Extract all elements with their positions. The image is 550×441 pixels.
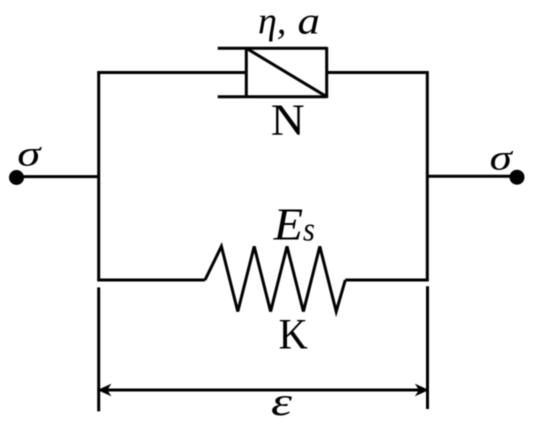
spring K zigzag: [205, 246, 345, 311]
dimension extension line right: [426, 286, 429, 409]
dimension line with arrows: [98, 384, 429, 397]
wire bottom right segment: [345, 279, 428, 282]
svg-text:a: a: [298, 0, 320, 42]
svg-text:N: N: [271, 95, 305, 144]
svg-text:σ: σ: [17, 134, 42, 174]
svg-text:E: E: [273, 200, 303, 250]
spring value label Es: [273, 200, 315, 250]
dashpot value label eta, a: [258, 0, 320, 43]
wire bottom left segment: [97, 279, 205, 282]
wire loop right vertical: [426, 71, 429, 281]
wire loop left vertical: [97, 71, 100, 281]
left terminal dot: [9, 170, 24, 185]
dashpot name label N: [271, 95, 305, 144]
wire right terminal: [427, 175, 517, 178]
svg-text:η,: η,: [258, 1, 286, 43]
wire left terminal to loop: [17, 175, 99, 178]
svg-text:s: s: [303, 210, 315, 248]
node sigma label right: [490, 138, 514, 178]
strain label epsilon: [271, 380, 292, 424]
svg-text:K: K: [279, 311, 308, 359]
node sigma label left: [17, 134, 42, 174]
svg-text:σ: σ: [490, 138, 514, 178]
right terminal dot: [510, 170, 525, 185]
spring name label K: [279, 311, 308, 359]
wire top right segment: [327, 71, 429, 74]
svg-text:ε: ε: [271, 380, 292, 424]
dimension extension line left: [97, 287, 100, 411]
wire top left segment: [97, 71, 246, 74]
dashpot N1 body: [218, 47, 327, 98]
